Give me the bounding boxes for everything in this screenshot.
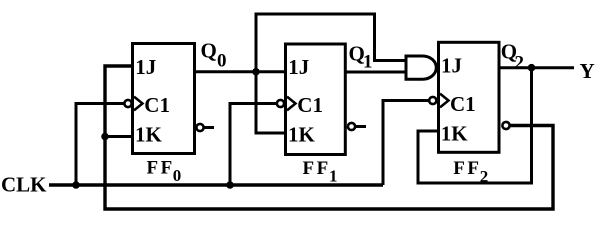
svg-text:C1: C1 — [144, 93, 170, 117]
svg-text:1K: 1K — [441, 121, 469, 145]
wire Q1 to AND gate input — [346, 71, 406, 74]
svg-text:C1: C1 — [297, 93, 323, 117]
wire FF1 Qbar stub — [355, 125, 366, 128]
svg-text:1J: 1J — [441, 54, 462, 78]
svg-text:FF: FF — [147, 157, 175, 178]
svg-text:Q: Q — [201, 39, 217, 63]
flip-flop FF2 box — [439, 42, 500, 152]
svg-text:1: 1 — [329, 166, 338, 185]
junction dot Q0 branch — [252, 68, 260, 76]
bubble FF1 Qbar — [348, 123, 355, 130]
junction dot Q2 branch — [528, 64, 536, 72]
svg-text:FF: FF — [303, 158, 331, 179]
AND gate U1 — [406, 56, 436, 79]
triangle clock marker FF0 — [134, 97, 143, 111]
svg-text:1K: 1K — [135, 123, 163, 147]
triangle clock marker FF1 — [287, 97, 296, 111]
bubble FF2 Qbar — [502, 122, 509, 129]
wire FF0 K stub — [105, 135, 133, 138]
bubble FF0 Qbar — [196, 124, 203, 131]
svg-text:1J: 1J — [135, 55, 156, 79]
wire Q0 — [195, 70, 286, 73]
svg-text:1: 1 — [363, 52, 373, 73]
wire Q2 to Y — [499, 66, 574, 69]
svg-text:0: 0 — [217, 50, 227, 71]
svg-text:Y: Y — [580, 59, 595, 83]
svg-text:1K: 1K — [288, 123, 316, 147]
wire CLK rail — [49, 183, 383, 186]
junction dot CLK to FF0 C1 — [72, 181, 80, 189]
wire FF0 Qbar stub — [204, 126, 215, 129]
flip-flop FF0 box — [133, 44, 195, 154]
wire AND output stub — [436, 66, 438, 69]
svg-text:FF: FF — [453, 158, 481, 179]
wire FF2 Qbar feedback to FF0 J and K — [105, 66, 553, 209]
svg-text:CLK: CLK — [1, 173, 47, 197]
svg-text:0: 0 — [173, 166, 182, 185]
junction dot FF0 K tie — [101, 133, 109, 141]
svg-text:1J: 1J — [288, 55, 309, 79]
svg-text:2: 2 — [515, 52, 525, 73]
bubble FF1 C1 — [277, 100, 284, 107]
junction dot CLK to FF1 C1 — [226, 181, 234, 189]
wire top link Q0 to AND gate input — [256, 14, 406, 72]
triangle clock marker FF2 — [440, 94, 449, 108]
wire FF1 C1 feed — [230, 104, 277, 186]
wire FF1 K feed from Q0 — [256, 72, 286, 133]
bubble FF2 C1 — [429, 97, 436, 104]
svg-text:C1: C1 — [450, 92, 476, 116]
wire FF2 K feed from Q2 — [418, 68, 532, 183]
wire FF2 C1 feed — [383, 101, 429, 186]
svg-text:2: 2 — [480, 167, 489, 186]
wire FF0 C1 feed — [76, 104, 125, 186]
bubble FF0 C1 — [124, 100, 131, 107]
flip-flop FF1 box — [286, 44, 346, 155]
